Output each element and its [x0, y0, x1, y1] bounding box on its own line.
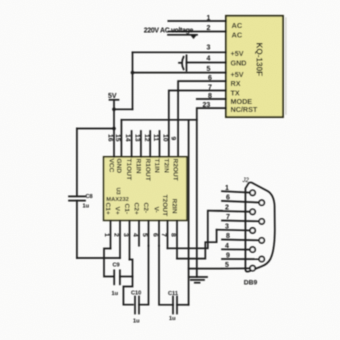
wire +5V riser joining pins 3 and 5 — [132, 52, 134, 109]
leader arrowhead — [191, 35, 197, 39]
module U2 KQ-130F body — [226, 16, 283, 117]
capacitor C9 — [113, 270, 115, 284]
wire module pin7 TX down to U1 pin10 — [169, 91, 226, 157]
ground symbol — [189, 276, 207, 278]
wire ground rail vertical (right of U1) — [188, 120, 190, 305]
junction 5V branch — [112, 108, 116, 112]
wire module pin2 — [168, 31, 226, 33]
wire module pin3 — [133, 51, 227, 53]
wire C8 bottom to U1 pin2 — [77, 257, 120, 259]
wire U1 pin1 to C9 — [104, 249, 113, 277]
wire ground to DB9 pin5 — [189, 268, 222, 270]
capacitor C11 — [172, 297, 174, 314]
connector J2 DB9 outline — [245, 182, 274, 271]
wire module pin23 NC/RST to ground rail — [197, 108, 226, 277]
U1 bottom pin stubs — [110, 220, 112, 248]
wire module pin1 — [168, 20, 226, 22]
capacitor C10 — [134, 297, 136, 314]
wire module pin8 MODE — [197, 98, 226, 100]
junction VCC — [112, 127, 116, 131]
wire U1 pin8 R2IN to DB9 pin3 — [177, 230, 217, 259]
wire U1 pin6 down to C11 — [159, 246, 173, 305]
leader underline — [168, 34, 197, 36]
wire C11 right to ground rail — [177, 304, 189, 306]
U1 pin16 stub (from VCC junction) — [113, 129, 115, 157]
wire ground rail horizontal — [121, 119, 196, 121]
wire module pin4 — [187, 62, 227, 64]
wire U1 pin7 T2OUT to DB9 pin2 — [168, 211, 223, 249]
wire C9 right to pin3 riser — [120, 276, 133, 278]
wire module pin5 — [133, 72, 227, 74]
wire U1 pin3 jog down to C10 — [123, 260, 133, 305]
capacitor C8 (in 5V line) — [76, 129, 78, 197]
capacitor C7 (decoupling, polarized) — [186, 55, 188, 71]
wire U1 pin15 GND stub — [120, 120, 122, 157]
op IC U1 MAX232 body — [104, 157, 187, 221]
scan streak artifact — [285, 18, 287, 114]
junction pin5/+5V — [131, 71, 135, 75]
wire 5V to C8 branch — [77, 128, 114, 130]
wire module pin6 RX down to U1 pin9 — [178, 81, 226, 157]
U1 top pin stubs 16,15 handled, stubs 14..11 — [131, 131, 133, 157]
wire C10 right up to U1 pin5 — [139, 246, 149, 305]
wire 5V to pins3/5 riser — [114, 108, 133, 110]
